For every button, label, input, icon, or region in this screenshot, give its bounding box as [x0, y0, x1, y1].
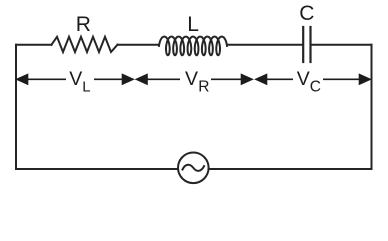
- svg-text:V: V: [297, 68, 310, 90]
- svg-text:L: L: [82, 78, 90, 95]
- svg-text:R: R: [198, 79, 209, 96]
- svg-text:V: V: [69, 68, 82, 90]
- svg-text:C: C: [299, 2, 314, 25]
- svg-text:C: C: [310, 78, 321, 95]
- svg-text:R: R: [76, 13, 91, 36]
- svg-text:V: V: [185, 68, 198, 90]
- svg-text:L: L: [187, 13, 199, 36]
